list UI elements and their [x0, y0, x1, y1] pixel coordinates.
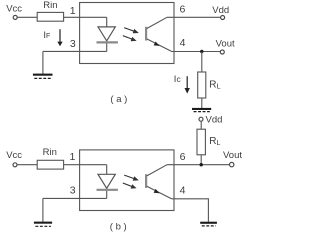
ground below RL (a) [192, 108, 211, 112]
current arrow IF (a) [57, 29, 62, 46]
ground left (b) [34, 222, 52, 227]
wire Rin to pin 1 and LED anode (b) [64, 164, 107, 166]
terminal Vcc (a) [13, 15, 17, 19]
svg-text:RL: RL [209, 80, 220, 91]
svg-text:Vdd: Vdd [212, 5, 229, 16]
wire RL to node (b) [200, 155, 202, 165]
wire pin 4 to ground (b) [172, 199, 209, 222]
terminal Vout (a) [220, 50, 224, 54]
resistor RL (a) [198, 72, 206, 98]
ground right (b) [200, 222, 217, 226]
light arrow upper (a) [124, 28, 139, 34]
wire down to ground (b) [42, 198, 44, 221]
LED D1 (b) [97, 165, 118, 199]
svg-text:4: 4 [180, 185, 186, 197]
LED D1 (a) [97, 17, 118, 51]
light arrow lower (b) [123, 183, 137, 189]
phototransistor Q1 (a) [146, 17, 171, 51]
svg-text:Rin: Rin [43, 0, 57, 11]
wire down to ground (a) [42, 51, 44, 73]
resistor Rin (b) [37, 160, 63, 169]
wire pin 4 to Vout (a) [172, 51, 221, 53]
phototransistor Q1 (b) [146, 165, 171, 199]
wire Vdd to RL (b) [200, 121, 202, 129]
wire pin 3 to LED cathode (a) [43, 50, 107, 52]
wire Rin to pin 1 and LED anode (a) [64, 16, 107, 18]
svg-text:6: 6 [180, 151, 186, 163]
svg-text:Vout: Vout [223, 150, 242, 161]
wire Vcc to Rin (b) [17, 164, 37, 166]
svg-text:Ic: Ic [174, 74, 182, 85]
wire node to RL (a) [201, 52, 203, 73]
svg-text:4: 4 [180, 37, 186, 49]
current arrow IC (a) [185, 76, 190, 93]
terminal Vout (b) [230, 162, 234, 166]
svg-text:Vcc: Vcc [6, 150, 22, 161]
svg-text:Rin: Rin [43, 147, 57, 158]
terminal Vcc (b) [13, 163, 17, 167]
wire pin 6 to Vout (b) [167, 164, 230, 166]
svg-text:Vdd: Vdd [206, 115, 223, 126]
svg-text:( a ): ( a ) [110, 94, 127, 105]
terminal Vdd (a) [221, 16, 225, 20]
light arrow upper (b) [124, 175, 139, 181]
junction node (a) [200, 50, 203, 53]
svg-text:3: 3 [70, 184, 76, 196]
svg-text:6: 6 [179, 3, 185, 15]
svg-text:( b ): ( b ) [110, 222, 127, 233]
wire Vcc to Rin (a) [17, 16, 37, 18]
ground left (a) [33, 74, 53, 79]
light arrow lower (a) [123, 36, 137, 42]
wire pin 6 to Vdd (a) [167, 16, 220, 18]
wire pin 3 to LED cathode (b) [43, 197, 107, 199]
svg-text:RL: RL [209, 136, 220, 147]
optocoupler box (b) [80, 150, 174, 211]
svg-text:1: 1 [70, 5, 76, 17]
resistor RL (b) [197, 129, 205, 155]
svg-text:Vout: Vout [216, 39, 235, 50]
svg-text:3: 3 [70, 38, 76, 50]
wire RL to ground (a) [201, 98, 203, 108]
terminal Vdd (b) [199, 117, 203, 121]
optocoupler box (a) [80, 3, 174, 64]
svg-text:Vcc: Vcc [6, 3, 22, 14]
resistor Rin (a) [37, 12, 63, 21]
svg-text:1: 1 [69, 151, 75, 163]
svg-text:IF: IF [43, 30, 50, 41]
junction node (b) [200, 163, 203, 166]
